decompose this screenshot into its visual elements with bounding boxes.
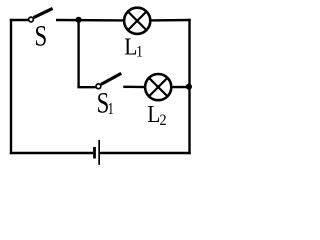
wire top-right segment from lamp L1 to right edge bbox=[150, 19, 191, 22]
wire right edge bbox=[188, 19, 190, 154]
svg-text:L2: L2 bbox=[147, 100, 166, 129]
lamp L2 bbox=[145, 74, 171, 100]
svg-text:S: S bbox=[35, 19, 48, 53]
wire left edge bbox=[10, 19, 12, 154]
wire middle-right segment from lamp L2 to right edge bbox=[171, 86, 190, 88]
wire top-left segment to switch S bbox=[10, 19, 28, 21]
wire bottom-left segment to battery bbox=[10, 152, 93, 154]
switch S bbox=[29, 8, 53, 22]
battery cell bbox=[93, 140, 100, 165]
wire top middle segment from switch S through junction to lamp L1 bbox=[56, 19, 125, 22]
wire bottom-right segment from battery to right edge bbox=[100, 152, 191, 154]
wire middle segment from switch S1 to lamp L2 bbox=[123, 86, 145, 89]
lamp L1 bbox=[124, 8, 150, 34]
junction node on top wire bbox=[76, 17, 82, 23]
svg-text:S1: S1 bbox=[97, 86, 114, 120]
wire middle branch left segment to switch S1 bbox=[77, 86, 95, 88]
junction node on right edge bbox=[186, 84, 192, 90]
svg-text:L1: L1 bbox=[124, 32, 143, 60]
wire vertical connector from junction down to middle branch bbox=[77, 20, 79, 87]
switch S1 bbox=[96, 73, 121, 88]
